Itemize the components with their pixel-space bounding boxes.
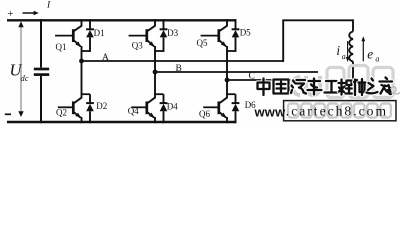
svg-text:i: i: [336, 43, 340, 58]
inductor winding ea: [349, 32, 353, 62]
watermark char guo: [274, 80, 289, 94]
wire leg A upper: [81, 52, 83, 61]
svg-text:.cartech8.com: .cartech8.com: [286, 104, 388, 119]
wire leg A lower: [81, 61, 83, 98]
svg-text:D2: D2: [96, 101, 107, 111]
watermark url box: [284, 101, 396, 121]
watermark grey squiggle: [391, 87, 400, 94]
svg-text:Q1: Q1: [56, 42, 67, 52]
node C junction: [225, 78, 230, 83]
watermark char shi: [354, 79, 366, 95]
wire leg C lower: [226, 80, 228, 98]
svg-text:D1: D1: [94, 28, 105, 38]
diode D2: [82, 94, 94, 123]
svg-text:B: B: [176, 64, 182, 74]
wire phase A: [82, 60, 284, 62]
svg-text:Q2: Q2: [56, 108, 67, 118]
svg-text:a: a: [375, 55, 379, 64]
wire load right upper: [352, 19, 354, 31]
top rail (positive DC bus): [7, 19, 236, 21]
svg-text:A: A: [102, 53, 109, 63]
svg-text:e: e: [367, 46, 373, 61]
svg-text:Q6: Q6: [199, 109, 210, 119]
left bus wire upper: [40, 19, 42, 68]
diode D6: [227, 94, 239, 123]
wire phase B: [155, 71, 318, 73]
minus terminal label: [5, 113, 11, 115]
watermark char zhong: [258, 79, 270, 96]
left bus wire lower: [40, 76, 42, 123]
transistor Q5: [201, 19, 228, 53]
node A junction: [79, 59, 84, 64]
watermark ghost logo: [292, 77, 300, 95]
watermark char qi: [291, 80, 306, 94]
watermark char gong: [325, 81, 339, 93]
transistor Q4: [131, 97, 155, 123]
bottom rail (negative DC bus): [7, 121, 236, 123]
svg-text:www: www: [254, 104, 287, 119]
transistor Q3: [129, 19, 156, 53]
transistor Q1: [55, 19, 82, 53]
watermark char che: [308, 79, 322, 95]
wire leg B upper: [154, 52, 156, 72]
svg-text:dc: dc: [21, 73, 29, 83]
svg-text:D4: D4: [167, 102, 178, 112]
watermark char cheng: [339, 80, 353, 95]
svg-text:Q4: Q4: [128, 106, 139, 116]
wire load top: [282, 19, 353, 21]
svg-text:a: a: [342, 52, 346, 61]
capacitor C plates: [34, 68, 49, 71]
wire load left vertical: [282, 20, 284, 62]
diode D1: [82, 19, 94, 52]
wire leg C upper: [226, 52, 228, 80]
wire load lower: [352, 62, 354, 85]
svg-text:Q3: Q3: [132, 41, 143, 51]
transistor Q2: [58, 97, 82, 123]
diode D4: [155, 94, 167, 123]
Udc measurement arrow: [20, 25, 22, 113]
watermark char jia: [380, 78, 393, 95]
transistor Q6: [203, 97, 227, 123]
watermark char zhi: [367, 79, 378, 94]
wire phase C: [227, 79, 291, 81]
diode D5: [227, 19, 239, 52]
svg-text:+: +: [7, 8, 13, 20]
svg-text:Q5: Q5: [197, 38, 208, 48]
wire leg B lower: [154, 72, 156, 98]
svg-text:D5: D5: [240, 27, 251, 37]
svg-text:D3: D3: [167, 28, 178, 38]
emf ea arrow: [362, 40, 364, 61]
current ia arrow: [347, 41, 349, 59]
watermark ghost url letters: [288, 104, 299, 118]
node B junction: [153, 70, 158, 75]
diode D3: [155, 19, 167, 52]
current arrow I: [23, 12, 35, 14]
svg-text:C: C: [249, 72, 255, 82]
